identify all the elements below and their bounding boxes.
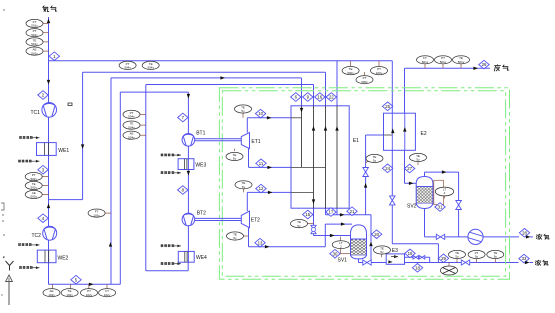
svg-text:5y: 5y xyxy=(494,255,498,259)
flow arrow r at 478.0,68.3 xyxy=(473,67,478,70)
wire: tube3 outlet below E1 x=325.5 xyxy=(325,208,327,215)
svg-text:501y: 501y xyxy=(458,60,465,64)
svg-text:28: 28 xyxy=(522,230,527,235)
node 10 xyxy=(255,109,265,118)
wire: SV2 overhead riser xyxy=(424,172,426,177)
wire: SV1 side feed y=235.5 xyxy=(314,235,352,237)
svg-text:21: 21 xyxy=(350,209,355,214)
flow arrow d at 188.4,175.5 xyxy=(187,171,190,176)
svg-text:500y: 500y xyxy=(361,80,368,84)
wire: header y=77.9 from x=111 to tube-1 drop xyxy=(111,77,302,79)
flow arrow u at 392.8,128.5 xyxy=(391,129,394,134)
wire: nitrogen feed main vertical line x=48.5 xyxy=(48,17,50,284)
wire: top header from node 1 to E2 feed, y=60.8 xyxy=(49,60,393,62)
wire: tube2 drop x=313.5 into E1 xyxy=(313,85,315,106)
instrument bubble TE 5y xyxy=(235,105,252,113)
svg-text:33: 33 xyxy=(522,256,527,261)
wire: ammonia product line 2 tail xyxy=(530,262,534,264)
analyzer bubble with cross xyxy=(440,266,457,275)
turbo-expander brake BT1 xyxy=(182,134,195,147)
E3 inner arrow top xyxy=(394,255,398,258)
instrument bubble TE 102y xyxy=(61,289,78,297)
wire: big loop left vertical x=120.3 xyxy=(119,92,121,284)
instrument bubble TE 501y xyxy=(26,38,43,46)
svg-text:502y: 502y xyxy=(30,186,37,190)
instrument bubble TE 5y xyxy=(487,250,504,258)
svg-text:26: 26 xyxy=(482,62,487,67)
wire: tube2 outlet x=313.5 below E1 through globe valve xyxy=(313,208,315,235)
valve on E2 riser xyxy=(363,168,369,177)
node 31 xyxy=(435,203,445,212)
WE3 cooling water out xyxy=(161,171,163,173)
flow arrow u at 110.5,242.0 xyxy=(109,242,112,247)
svg-text:5y: 5y xyxy=(380,250,384,254)
flow arrow u at 48.5,18.5 xyxy=(47,19,50,24)
svg-text:504y: 504y xyxy=(128,135,135,139)
heat exchanger WE2 xyxy=(37,250,56,263)
E1 internal feed 11 xyxy=(291,166,326,168)
node 5 xyxy=(71,275,81,284)
node 28 xyxy=(519,229,529,238)
small valve E3 bypass 1 xyxy=(413,256,419,259)
instrument bubble FT 103y xyxy=(88,209,105,217)
flow arrow u at 48.5,203.5 xyxy=(47,204,50,209)
WE4 cooling water in xyxy=(161,245,163,247)
small square annotation near TC1 xyxy=(68,103,72,106)
instrument bubble LT SV2 xyxy=(435,187,453,196)
flow arrow u at 371.0,241.5 xyxy=(369,242,372,247)
WE4 cooling water out xyxy=(161,262,163,264)
heat exchanger WE4 xyxy=(178,251,194,262)
flow arrow d at 48.5,84.5 xyxy=(47,80,50,85)
instrument bubble TE 5y xyxy=(226,152,243,160)
instrument bubble FT 501y xyxy=(26,19,43,27)
svg-text:WE1: WE1 xyxy=(58,148,69,154)
wire: E2 riser lower x=371 from liquid line xyxy=(370,215,372,263)
svg-text:5y: 5y xyxy=(455,255,459,259)
wire: BT loop bottom y=270.8 xyxy=(146,270,188,272)
svg-text:TC1: TC1 xyxy=(31,110,41,116)
svg-text:16: 16 xyxy=(317,95,322,100)
svg-text:27: 27 xyxy=(407,166,412,171)
instrument bubble TE 502y xyxy=(25,181,42,189)
valve on ammonia line 2 xyxy=(461,260,469,265)
instrument bubble PT 500y xyxy=(356,76,373,84)
svg-text:501y: 501y xyxy=(31,51,38,55)
instrument bubble TE 5y xyxy=(374,246,391,254)
instrument bubble TE 5y xyxy=(410,153,427,161)
instrument bubble AE 504y xyxy=(123,131,140,139)
svg-text:ET2: ET2 xyxy=(251,218,260,224)
node 21 xyxy=(347,207,357,216)
flow arrow d at 188.4,98.5 xyxy=(187,94,190,99)
ammonia pump xyxy=(468,229,483,244)
wire: tube1 drop x=301.5 into E1 xyxy=(301,78,303,106)
E2 internal inlet xyxy=(384,134,393,136)
instrument bubble FT 501y xyxy=(417,56,434,64)
flow arrow r at 446.5,172.1 xyxy=(442,170,447,173)
wire: tube3 drop x=325.5 into E1 xyxy=(325,72,327,106)
instrument bubble TE 5y xyxy=(227,232,244,240)
node 8 xyxy=(178,186,188,195)
green battery-limit inner box xyxy=(222,91,505,277)
wire: ET1 outlet to E1 y=117.8 xyxy=(247,117,290,119)
instrument bubble PT 504y xyxy=(119,61,136,69)
wire: main down-corner at WE2 outlet xyxy=(48,263,50,284)
valve on ammonia line 1 xyxy=(436,234,444,239)
wire: E2 riser inlet y=135 xyxy=(366,134,384,136)
flow arrow u at 313.5,126.0 xyxy=(312,126,315,131)
svg-text:504y: 504y xyxy=(128,125,135,129)
svg-text:504y: 504y xyxy=(124,66,131,70)
wire: SV2 inlet y=183.3 xyxy=(405,182,418,184)
svg-text:19: 19 xyxy=(408,251,413,256)
instrument bubble TE 5y xyxy=(291,220,308,228)
heat exchanger E1 shell xyxy=(291,106,349,208)
wire: tube4 drop x=337 into E1 xyxy=(336,61,338,106)
WE3 cooling water in xyxy=(161,154,163,156)
flow arrow r at 269.5,246.7 xyxy=(265,245,270,248)
svg-text:5y: 5y xyxy=(475,255,479,259)
expansion turbine ET2 xyxy=(241,211,249,228)
heat exchanger E2 shell xyxy=(384,113,416,150)
wire: recycle header y=72.2 from x=82.6 to tube-3 drop xyxy=(83,71,326,73)
svg-text:5y: 5y xyxy=(297,224,301,228)
instrument bubble FT 102y xyxy=(99,289,116,297)
turbo-expander brake BT2 xyxy=(182,213,195,226)
compressor TC2 xyxy=(43,226,57,240)
WE2 cooling water in xyxy=(18,243,20,245)
shaft BT1-ET1 xyxy=(195,138,242,140)
wire: E2 bottoms x=404.5 to SV2 xyxy=(404,150,406,183)
node 2 xyxy=(38,91,48,100)
svg-text:SV2: SV2 xyxy=(407,204,417,210)
node 26 xyxy=(479,60,489,69)
svg-text:103y: 103y xyxy=(93,213,100,217)
label nitrogen feed dan-qi xyxy=(43,6,49,12)
heat exchanger WE1 xyxy=(37,143,57,156)
separator vessel SV2 xyxy=(416,177,433,209)
svg-text:E3: E3 xyxy=(392,248,398,254)
label liquid ammonia 1 ye-an xyxy=(536,234,542,239)
flow arrow d at 313.5,204.0 xyxy=(312,199,315,204)
svg-text:E2: E2 xyxy=(421,131,427,137)
svg-text:BT1: BT1 xyxy=(196,131,205,137)
instrument bubble AE 102y xyxy=(43,289,60,297)
E1 internal feed 12 xyxy=(291,191,314,193)
wire: E3 bypass drop x=429.7 xyxy=(429,257,431,262)
flow arrow r at 272.0,167.4 xyxy=(267,166,272,169)
svg-text:5y: 5y xyxy=(242,185,246,189)
heat exchanger E3 shell xyxy=(386,254,404,264)
svg-text:20: 20 xyxy=(374,232,379,237)
node 18 xyxy=(412,264,422,273)
flow arrow u at 404.8,127.0 xyxy=(403,127,406,132)
wire: E2 drain x=392.3 with valve xyxy=(391,150,393,244)
wire: node13 riser x=325.3 up xyxy=(324,224,326,247)
E1 tube 4 xyxy=(336,106,338,208)
compressor TC1 xyxy=(42,103,57,118)
svg-text:E1: E1 xyxy=(353,138,359,144)
svg-text:501y: 501y xyxy=(31,42,38,46)
instrument bubble TE 5y xyxy=(235,181,252,189)
svg-text:500y: 500y xyxy=(347,71,354,75)
svg-text:22: 22 xyxy=(329,95,334,100)
wire: vertical x=111 down to bottom header xyxy=(110,78,112,284)
svg-text:TC2: TC2 xyxy=(32,233,42,239)
svg-text:17: 17 xyxy=(329,210,334,215)
valve on SV2 overhead drop xyxy=(456,201,462,210)
orientation arrow xyxy=(8,281,10,305)
flow arrow d at 82.6,149.0 xyxy=(81,144,84,149)
svg-text:31: 31 xyxy=(438,205,443,210)
node 15 xyxy=(303,210,313,219)
svg-text:5y: 5y xyxy=(233,236,237,240)
svg-text:12: 12 xyxy=(259,186,264,191)
wire: ammonia product line 1 tail xyxy=(530,236,533,238)
node 1 xyxy=(49,52,59,61)
flow arrow r at 529.5,262.5 xyxy=(525,261,530,264)
svg-text:102y: 102y xyxy=(48,293,55,297)
svg-text:502y: 502y xyxy=(30,195,37,199)
instrument bubble PT 501y xyxy=(26,29,43,37)
wire: BT loop return header y=84.5 xyxy=(146,84,314,86)
wire: ET2 top line to E1 y=192.4 xyxy=(246,192,248,211)
node 33 xyxy=(519,254,529,263)
svg-text:BT2: BT2 xyxy=(197,211,206,217)
wire: ET1 bottom line to E1 y=167.4 xyxy=(248,149,250,168)
flow arrow r at 225.0,77.9 xyxy=(220,76,225,79)
svg-text:10: 10 xyxy=(258,111,263,116)
wire: BT train vertical x=188.4 through BT1 WE3 BT2 WE4 xyxy=(187,92,189,262)
wire: ET1 top riser xyxy=(246,118,248,133)
svg-text:501y: 501y xyxy=(31,24,38,28)
instrument bubble PT 100y xyxy=(371,67,388,75)
heat exchanger WE3 xyxy=(178,159,194,170)
svg-text:5y: 5y xyxy=(416,158,420,162)
node 17 xyxy=(326,208,336,217)
node 9 xyxy=(303,93,313,102)
E3 inner arrow bottom xyxy=(388,260,392,263)
wire: waste gas header y=68.3 xyxy=(405,67,491,69)
instrument impulse stems xyxy=(42,24,495,290)
node 25 xyxy=(382,102,392,111)
node 3 xyxy=(38,165,48,174)
expansion turbine ET1 xyxy=(241,133,249,149)
E2 tube 2 xyxy=(404,113,406,150)
svg-text:102y: 102y xyxy=(86,293,93,297)
instrument bubble AE 501y xyxy=(26,47,43,55)
small valve E3 bypass 2 xyxy=(419,256,425,259)
instrument bubble TE 504y xyxy=(142,61,159,69)
node 24 xyxy=(382,164,392,173)
svg-text:WE2: WE2 xyxy=(58,256,69,262)
wire: BT loop riser to WE4 bottom xyxy=(187,262,189,271)
wire: SV1 top feed y=224.1 xyxy=(325,223,352,225)
separator vessel SV1 xyxy=(351,225,367,259)
instrument bubble PT 501y xyxy=(435,56,452,64)
node 6 xyxy=(291,93,301,102)
wire: BT loop left vertical x=145.8 xyxy=(145,85,147,271)
svg-text:102y: 102y xyxy=(66,293,73,297)
instrument bubble TE 5y xyxy=(449,250,466,258)
flow arrow u at 325.5,126.0 xyxy=(324,126,327,131)
valve on E2 drain xyxy=(390,196,396,205)
instrument bubble PT 5y xyxy=(468,250,485,258)
wire: SV1 bottoms drop xyxy=(358,259,360,263)
instrument bubble LT SV1 xyxy=(332,241,349,249)
node 16 xyxy=(315,93,325,102)
svg-text:5y: 5y xyxy=(373,159,377,163)
margin tick marks xyxy=(1,203,4,210)
label waste gas fei-qi xyxy=(494,65,500,71)
wire: header y=92.1 to BT train xyxy=(120,91,188,93)
flow arrow r at 344.5,214.8 xyxy=(340,213,345,216)
flow arrow r at 272.5,192.4 xyxy=(268,191,273,194)
svg-text:ET1: ET1 xyxy=(251,139,260,145)
node 29 xyxy=(438,254,448,263)
node 20 xyxy=(371,230,381,239)
WE1 cooling water in xyxy=(19,136,21,138)
north Y symbol xyxy=(6,261,14,271)
instrument bubble TE 504y xyxy=(123,121,140,129)
wire: E2 feed drop x=392.3 xyxy=(391,61,393,113)
wire: SV2 overhead drop x=458.6 with valve xyxy=(458,172,460,237)
wire: E2 drain drop x=438.4 to ammonia line xyxy=(437,244,439,263)
E2 tube 1 xyxy=(391,113,393,150)
wire: branch vertical x=82.6 down to main line xyxy=(82,72,84,199)
wire: E3 bypass y=257.3 xyxy=(405,256,430,258)
svg-text:504y: 504y xyxy=(128,115,135,119)
wire: tube4 outlet below E1 x=337 xyxy=(336,208,338,215)
instrument bubble AE 502y xyxy=(25,190,42,198)
flow arrow r at 334.5,235.5 xyxy=(330,234,335,237)
wire: transfer line y=214.8 to E2 riser xyxy=(326,214,372,216)
instrument bubble TE 500y xyxy=(342,67,359,75)
svg-text:501y: 501y xyxy=(31,33,38,37)
E1 tube 3 xyxy=(325,106,327,208)
svg-text:501y: 501y xyxy=(422,60,429,64)
svg-text:102y: 102y xyxy=(104,293,111,297)
svg-text:5y: 5y xyxy=(241,109,245,113)
wire: SV2 bottoms x=424.5 xyxy=(424,209,426,237)
svg-text:WE4: WE4 xyxy=(196,255,207,261)
wire: E2 overhead x=404.5 up xyxy=(404,68,406,113)
wire: branch horizontal y=199.6 joining main line xyxy=(49,199,83,201)
node 12 xyxy=(256,184,266,193)
wire: bottom header y=286.5 xyxy=(49,283,121,285)
E1 tube 1 xyxy=(301,106,303,168)
SV2 level gauge piping xyxy=(434,180,444,204)
node 27 xyxy=(404,164,414,173)
node 4 xyxy=(38,214,48,223)
node 11 xyxy=(256,159,266,168)
svg-text:29: 29 xyxy=(441,256,446,261)
instrument bubble TE 5y xyxy=(366,154,383,162)
wire: ET2 bottom line y=246.7 to SV1 riser xyxy=(248,228,250,247)
svg-text:24: 24 xyxy=(385,166,390,171)
WE1 cooling water out xyxy=(18,160,20,162)
svg-text:5y: 5y xyxy=(233,157,237,161)
valve on SV1 bottoms xyxy=(363,260,371,265)
svg-text:11: 11 xyxy=(259,161,264,166)
instrument bubble PT 502y xyxy=(25,173,42,181)
svg-text:15: 15 xyxy=(305,212,310,217)
flow arrow d at 301.5,112.5 xyxy=(300,108,303,113)
node 19 xyxy=(405,249,415,258)
WE2 cooling water out xyxy=(19,266,21,268)
flow arrow u at 337.0,126.0 xyxy=(335,126,338,131)
node 13 xyxy=(255,238,265,247)
svg-text:18: 18 xyxy=(415,265,420,270)
instrument bubble PT 102y xyxy=(81,289,98,297)
instrument bubble PT 504y xyxy=(123,110,140,118)
green battery-limit outer box xyxy=(219,88,509,280)
node 22 xyxy=(326,93,336,102)
wire: ammonia product line 1 y=236.9 xyxy=(425,236,520,238)
wire: SV2 overhead y=172.1 xyxy=(425,171,459,173)
flow arrow r at 530.5,236.9 xyxy=(526,235,531,238)
svg-text:100y: 100y xyxy=(376,71,383,75)
svg-text:WE3: WE3 xyxy=(195,163,206,169)
flow arrow u at 365.6,183.0 xyxy=(364,183,367,188)
globe valve below node 15 xyxy=(311,225,316,233)
svg-text:501y: 501y xyxy=(440,60,447,64)
instrument bubble TE 501y xyxy=(453,56,470,64)
svg-text:SV1: SV1 xyxy=(338,258,348,264)
shaft BT2-ET2 xyxy=(195,217,242,219)
svg-text:502y: 502y xyxy=(30,177,37,181)
flow arrow r at 413.5,183.3 xyxy=(409,182,414,185)
node 7 xyxy=(178,113,188,122)
flow arrow r at 93.5,284.3 xyxy=(89,283,94,286)
wire: ammonia product line 2 y=262.5 through E3 xyxy=(359,262,519,264)
svg-text:30: 30 xyxy=(333,251,338,256)
svg-text:13: 13 xyxy=(258,240,263,245)
wire: E2 riser upper x=365.6 xyxy=(365,135,367,215)
E1 tube 2 xyxy=(313,106,315,208)
wire: E2 drain horizontal y=243.8 xyxy=(392,243,438,245)
svg-text:504y: 504y xyxy=(147,66,154,70)
label liquid ammonia 2 ye-an xyxy=(535,260,541,265)
E1 internal feed 10 xyxy=(291,117,302,119)
node 30 xyxy=(330,249,340,258)
flow arrow r at 345.5,224.1 xyxy=(341,222,346,225)
svg-text:25: 25 xyxy=(385,104,390,109)
flow arrow r at 271.5,117.8 xyxy=(267,116,272,119)
